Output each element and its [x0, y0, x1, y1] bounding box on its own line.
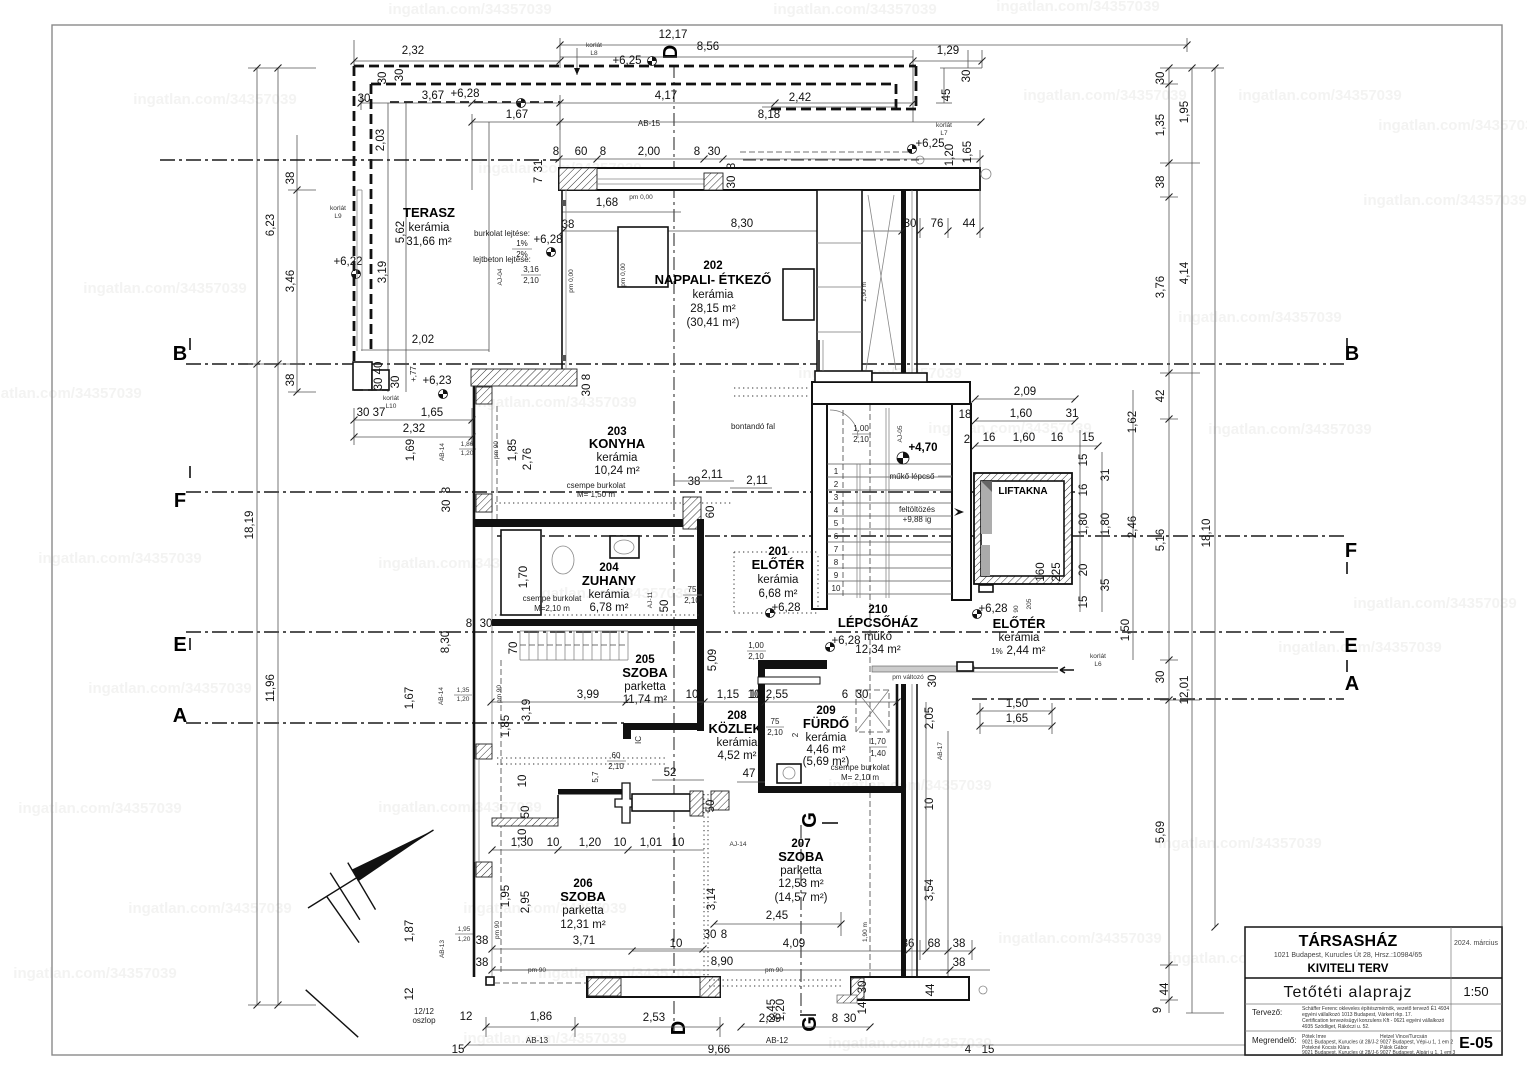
- svg-text:15: 15: [452, 1044, 465, 1056]
- section line E-E: [186, 631, 1344, 633]
- svg-text:2,03: 2,03: [375, 129, 387, 151]
- svg-text:31,66 m²: 31,66 m²: [406, 236, 452, 248]
- svg-text:205: 205: [1026, 598, 1033, 609]
- svg-text:2,76: 2,76: [522, 448, 534, 470]
- svg-text:csempe burkolat: csempe burkolat: [831, 763, 890, 772]
- svg-text:4: 4: [965, 1044, 972, 1056]
- svg-text:ingatlan.com/34357039: ingatlan.com/34357039: [18, 800, 181, 817]
- svg-text:4,17: 4,17: [655, 90, 677, 102]
- svg-text:4,14: 4,14: [1179, 261, 1191, 284]
- svg-text:7: 7: [533, 177, 545, 183]
- svg-text:16: 16: [1051, 432, 1064, 444]
- svg-text:90: 90: [1013, 605, 1020, 613]
- svg-text:18,19: 18,19: [244, 511, 256, 540]
- svg-text:9: 9: [834, 571, 839, 580]
- svg-text:38: 38: [562, 219, 575, 231]
- svg-text:2: 2: [964, 434, 970, 446]
- svg-text:pm 90: pm 90: [528, 967, 546, 974]
- svg-text:parketta: parketta: [624, 681, 666, 693]
- svg-text:3,19: 3,19: [521, 699, 533, 721]
- svg-text:6,68 m²: 6,68 m²: [759, 588, 798, 600]
- svg-text:10: 10: [547, 837, 560, 849]
- svg-text:52: 52: [664, 767, 677, 779]
- pier hatched: [476, 387, 492, 404]
- svg-text:8: 8: [581, 374, 593, 380]
- svg-text:ingatlan.com/34357039: ingatlan.com/34357039: [388, 1, 551, 18]
- svg-text:2,32: 2,32: [403, 423, 425, 435]
- tall cabinet: [817, 190, 862, 376]
- svg-text:M= 2,10 m: M= 2,10 m: [841, 773, 879, 782]
- svg-text:D: D: [668, 1021, 690, 1035]
- svg-text:30: 30: [480, 618, 493, 630]
- north exterior wall band with windows: [559, 168, 980, 190]
- svg-text:L10: L10: [386, 403, 397, 410]
- svg-text:9,66: 9,66: [708, 1044, 730, 1056]
- svg-text:16: 16: [983, 432, 996, 444]
- svg-text:42: 42: [1155, 390, 1167, 403]
- svg-text:38: 38: [285, 374, 297, 387]
- lift shaft: [974, 473, 1072, 584]
- svg-text:1,30: 1,30: [511, 837, 533, 849]
- upper wall band pieces: [818, 340, 820, 371]
- svg-text:F: F: [174, 490, 186, 512]
- svg-text:50: 50: [705, 800, 717, 813]
- svg-text:3,76: 3,76: [1155, 276, 1167, 298]
- pier hatched: [476, 862, 492, 877]
- svg-text:parketta: parketta: [780, 865, 822, 877]
- svg-text:ingatlan.com/34357039: ingatlan.com/34357039: [1208, 421, 1371, 438]
- svg-text:ELŐTÉR: ELŐTÉR: [752, 557, 805, 572]
- svg-text:TERASZ: TERASZ: [403, 205, 455, 220]
- svg-text:30: 30: [358, 93, 371, 105]
- svg-text:1,70: 1,70: [518, 566, 530, 588]
- svg-text:1,85: 1,85: [500, 715, 512, 737]
- svg-text:1,20: 1,20: [458, 936, 471, 943]
- svg-text:ingatlan.com/34357039: ingatlan.com/34357039: [1363, 192, 1526, 209]
- svg-text:műkő: műkő: [864, 631, 892, 643]
- svg-text:csempe burkolat: csempe burkolat: [567, 481, 626, 490]
- svg-text:1,95: 1,95: [500, 885, 512, 907]
- north arrow: [352, 830, 434, 882]
- section line A-A: [186, 722, 628, 724]
- svg-text:10: 10: [517, 775, 529, 788]
- svg-text:5,69: 5,69: [1155, 821, 1167, 843]
- right dimension chains: [1168, 68, 1170, 1013]
- svg-text:60: 60: [705, 506, 717, 519]
- svg-text:31: 31: [533, 160, 545, 173]
- svg-text:30: 30: [1155, 72, 1167, 85]
- svg-text:1,86: 1,86: [461, 441, 474, 448]
- svg-text:L7: L7: [940, 130, 948, 137]
- svg-text:47: 47: [743, 768, 756, 780]
- svg-text:pm változó: pm változó: [892, 674, 924, 681]
- svg-text:pm 0,00: pm 0,00: [568, 269, 575, 293]
- svg-text:AB-14: AB-14: [439, 443, 446, 461]
- svg-text:8,30: 8,30: [731, 218, 753, 230]
- svg-text:1,20: 1,20: [944, 144, 956, 166]
- svg-text:+6,22: +6,22: [333, 256, 362, 268]
- svg-text:LIFTAKNA: LIFTAKNA: [998, 486, 1047, 497]
- svg-text:1021 Budapest, Kurucles Út 28,: 1021 Budapest, Kurucles Út 28, Hrsz.:109…: [1274, 950, 1422, 959]
- bottom wall room 206: [587, 977, 720, 997]
- dining table: [783, 269, 814, 320]
- svg-text:kerámia: kerámia: [999, 632, 1041, 644]
- zuhany bottom wall: [492, 619, 704, 626]
- svg-text:1%: 1%: [516, 239, 528, 248]
- svg-text:KIVITELI TERV: KIVITELI TERV: [1308, 963, 1389, 975]
- svg-text:ingatlan.com/34357039: ingatlan.com/34357039: [996, 0, 1159, 15]
- bottom wall room 207: [851, 977, 969, 1000]
- svg-text:L8: L8: [590, 50, 598, 57]
- svg-text:3,67: 3,67: [422, 90, 444, 102]
- svg-text:40: 40: [373, 362, 385, 375]
- svg-text:2,02: 2,02: [412, 334, 434, 346]
- window pier hatched mid: [704, 173, 723, 190]
- svg-text:2,95: 2,95: [520, 891, 532, 913]
- svg-text:8: 8: [441, 487, 453, 493]
- svg-text:AB-15: AB-15: [638, 119, 661, 128]
- cross column: [615, 783, 637, 823]
- svg-text:12,17: 12,17: [659, 29, 688, 41]
- svg-text:kerámia: kerámia: [597, 452, 639, 464]
- svg-text:1,01: 1,01: [640, 837, 662, 849]
- svg-text:pm 90: pm 90: [493, 441, 500, 459]
- svg-text:1,70: 1,70: [870, 737, 886, 746]
- svg-text:8,18: 8,18: [758, 109, 780, 121]
- svg-text:7: 7: [834, 545, 839, 554]
- staircase outer walls: [812, 382, 970, 404]
- svg-text:L9: L9: [334, 213, 342, 220]
- svg-text:2,10: 2,10: [523, 276, 539, 285]
- svg-text:FÜRDŐ: FÜRDŐ: [803, 716, 849, 731]
- svg-text:+4,70: +4,70: [908, 442, 937, 454]
- svg-text:50: 50: [520, 806, 532, 819]
- svg-text:ingatlan.com/34357039: ingatlan.com/34357039: [83, 280, 246, 297]
- svg-text:kerámia: kerámia: [589, 589, 631, 601]
- sideboard furniture: [618, 227, 668, 287]
- outdoor landing walls: [872, 666, 974, 672]
- svg-text:+6,28: +6,28: [771, 602, 800, 614]
- svg-text:2,46: 2,46: [1127, 516, 1139, 538]
- svg-text:TÁRSASHÁZ: TÁRSASHÁZ: [1299, 931, 1398, 950]
- svg-text:2,09: 2,09: [1014, 386, 1036, 398]
- svg-text:kerámia: kerámia: [693, 289, 735, 301]
- svg-text:burkolat lejtése:: burkolat lejtése:: [474, 229, 530, 238]
- svg-text:kerámia: kerámia: [409, 222, 451, 234]
- svg-text:38: 38: [953, 957, 966, 969]
- svg-text:3,14: 3,14: [706, 887, 718, 910]
- svg-text:10,24 m²: 10,24 m²: [594, 465, 640, 477]
- svg-text:AB-12: AB-12: [766, 1036, 789, 1045]
- west exterior wall lower wing: [473, 369, 476, 977]
- svg-text:korlát: korlát: [586, 42, 602, 49]
- svg-text:9021 Budapest, Kurucles út 28/: 9021 Budapest, Kurucles út 28/J-6: [1302, 1050, 1379, 1056]
- top dimension chains: [560, 44, 1187, 46]
- svg-text:10: 10: [750, 689, 763, 701]
- svg-text:E: E: [1344, 635, 1357, 657]
- svg-text:2,53: 2,53: [643, 1012, 665, 1024]
- svg-text:4: 4: [834, 506, 839, 515]
- svg-text:2: 2: [834, 480, 839, 489]
- svg-text:+9,88 ig: +9,88 ig: [903, 515, 932, 524]
- svg-text:+6,28: +6,28: [978, 603, 1007, 615]
- svg-text:4,46 m²: 4,46 m²: [807, 744, 846, 756]
- svg-text:ingatlan.com/34357039: ingatlan.com/34357039: [0, 385, 142, 402]
- svg-text:ingatlan.com/34357039: ingatlan.com/34357039: [13, 965, 176, 982]
- svg-text:1,20: 1,20: [775, 999, 787, 1021]
- svg-text:12,31 m²: 12,31 m²: [560, 919, 606, 931]
- svg-text:31: 31: [1066, 408, 1079, 420]
- svg-text:30: 30: [927, 675, 939, 688]
- svg-text:15: 15: [982, 1044, 995, 1056]
- svg-text:Tervező:: Tervező:: [1252, 1008, 1282, 1017]
- svg-text:1,62: 1,62: [1127, 411, 1139, 433]
- svg-text:8: 8: [834, 558, 839, 567]
- svg-text:5: 5: [834, 519, 839, 528]
- svg-text:Megrendelő:: Megrendelő:: [1252, 1036, 1296, 1045]
- svg-text:76: 76: [931, 218, 944, 230]
- svg-text:1,40: 1,40: [870, 749, 886, 758]
- svg-text:AB-13: AB-13: [439, 940, 446, 958]
- parapet dotted below 207: [709, 979, 841, 981]
- svg-text:30: 30: [581, 384, 593, 397]
- svg-text:30: 30: [394, 69, 406, 82]
- svg-text:11,96: 11,96: [265, 674, 277, 702]
- svg-text:4,52 m²: 4,52 m²: [718, 750, 757, 762]
- svg-text:ingatlan.com/34357039: ingatlan.com/34357039: [38, 550, 201, 567]
- terrace parapet bottom step: [353, 362, 372, 390]
- stair treads room205 top: [519, 631, 521, 660]
- svg-text:75: 75: [688, 585, 697, 594]
- svg-text:30: 30: [708, 146, 721, 158]
- svg-text:3,19: 3,19: [377, 261, 389, 283]
- svg-text:2,44 m²: 2,44 m²: [1007, 645, 1046, 657]
- svg-text:SZOBA: SZOBA: [778, 849, 824, 864]
- svg-text:1,67: 1,67: [506, 109, 528, 121]
- svg-text:G: G: [799, 1016, 821, 1032]
- svg-text:AJ-11: AJ-11: [647, 591, 654, 608]
- svg-text:korlát: korlát: [330, 205, 346, 212]
- svg-text:+6,23: +6,23: [422, 375, 451, 387]
- svg-text:12/12: 12/12: [414, 1007, 435, 1016]
- svg-text:oszlop: oszlop: [412, 1016, 436, 1025]
- svg-text:1,60: 1,60: [1010, 408, 1032, 420]
- svg-text:10: 10: [686, 689, 699, 701]
- lift bottom box: [979, 585, 993, 592]
- svg-text:1,29: 1,29: [937, 45, 959, 57]
- stair dashed walk line: [842, 410, 844, 596]
- svg-text:8: 8: [466, 618, 472, 630]
- column circle marker: [981, 169, 991, 179]
- svg-text:AB-17: AB-17: [937, 742, 944, 760]
- kitchen top wall hatched: [471, 369, 577, 386]
- zuhany right wall pier: [683, 497, 701, 529]
- svg-text:14: 14: [857, 1001, 869, 1014]
- svg-text:38: 38: [688, 476, 701, 488]
- wall 207/208 band: [632, 794, 690, 811]
- svg-text:1: 1: [834, 467, 839, 476]
- left dimension chains: [256, 68, 258, 1005]
- svg-text:45: 45: [941, 89, 953, 102]
- svg-text:12: 12: [460, 1011, 473, 1023]
- svg-text:8: 8: [553, 146, 559, 158]
- svg-text:44: 44: [1159, 982, 1171, 995]
- svg-text:1,68: 1,68: [596, 197, 618, 209]
- svg-text:30: 30: [373, 378, 385, 391]
- section line B-B: [186, 363, 1344, 365]
- svg-text:B: B: [173, 343, 187, 365]
- svg-text:NAPPALI- ÉTKEZŐ: NAPPALI- ÉTKEZŐ: [655, 272, 772, 287]
- svg-text:pm 90: pm 90: [765, 967, 783, 974]
- svg-text:KÖZLEK.: KÖZLEK.: [708, 721, 765, 736]
- roof slope dashed line: [869, 405, 871, 977]
- svg-text:(30,41 m²): (30,41 m²): [686, 317, 739, 329]
- corridor bottom wall: [558, 789, 628, 795]
- section line G vertical: [800, 825, 802, 1013]
- svg-text:30: 30: [844, 1013, 857, 1025]
- title block: [1245, 927, 1502, 1055]
- stair treads: [827, 463, 952, 465]
- window pier hatched left: [559, 168, 597, 190]
- svg-text:2,10: 2,10: [684, 596, 700, 605]
- svg-text:5,62: 5,62: [395, 221, 407, 243]
- svg-text:38: 38: [1155, 176, 1167, 189]
- svg-text:1,65: 1,65: [962, 141, 974, 163]
- svg-text:202: 202: [703, 260, 722, 272]
- svg-text:kerámia: kerámia: [717, 737, 759, 749]
- svg-text:30: 30: [377, 72, 389, 85]
- svg-text:ELŐTÉR: ELŐTÉR: [993, 616, 1046, 631]
- svg-text:225: 225: [1051, 562, 1063, 581]
- svg-text:6,23: 6,23: [265, 214, 277, 236]
- svg-text:1,69: 1,69: [405, 439, 417, 461]
- terrace parapet dashed walls: [354, 65, 916, 68]
- svg-text:30: 30: [726, 176, 738, 189]
- wall stubs above stair: [815, 371, 872, 382]
- svg-text:38: 38: [285, 172, 297, 185]
- svg-text:AJ-04: AJ-04: [497, 268, 504, 285]
- svg-text:9: 9: [1152, 1007, 1164, 1013]
- svg-text:(14,57 m²): (14,57 m²): [774, 892, 827, 904]
- svg-text:2: 2: [791, 732, 800, 737]
- svg-text:30: 30: [857, 981, 869, 994]
- west window glazing: [474, 759, 476, 862]
- svg-text:3,16: 3,16: [523, 265, 539, 274]
- svg-text:2024. március: 2024. március: [1454, 940, 1498, 947]
- svg-text:30: 30: [856, 689, 869, 701]
- svg-text:1,67: 1,67: [404, 687, 416, 709]
- svg-text:pm 0,00: pm 0,00: [620, 263, 627, 287]
- svg-text:1,50: 1,50: [1006, 698, 1028, 710]
- dim line room 206: [492, 849, 704, 851]
- svg-text:1,86: 1,86: [530, 1011, 552, 1023]
- wall 207/208 pier: [690, 791, 703, 816]
- stair guide lines: [856, 464, 858, 598]
- svg-text:ingatlan.com/34357039: ingatlan.com/34357039: [1023, 87, 1186, 104]
- pier hatched: [476, 744, 492, 759]
- svg-text:2,10: 2,10: [853, 435, 869, 444]
- svg-text:L6: L6: [1094, 661, 1102, 668]
- svg-text:G: G: [799, 812, 821, 828]
- svg-text:Tetőtéti alaprajz: Tetőtéti alaprajz: [1283, 984, 1412, 1001]
- svg-text:10: 10: [832, 584, 841, 593]
- svg-text:1:50: 1:50: [1463, 984, 1488, 999]
- small corner column: [486, 977, 494, 985]
- svg-text:ingatlan.com/34357039: ingatlan.com/34357039: [1178, 309, 1341, 326]
- wall terrace-kitchen: [561, 190, 563, 369]
- corridor dotted opening lines: [497, 757, 668, 759]
- svg-text:F: F: [1345, 540, 1357, 562]
- zuhany top wall: [474, 519, 704, 527]
- svg-text:ingatlan.com/34357039: ingatlan.com/34357039: [128, 900, 291, 917]
- svg-text:ingatlan.com/34357039: ingatlan.com/34357039: [1378, 117, 1527, 134]
- svg-text:30: 30: [441, 500, 453, 513]
- svg-text:4,09: 4,09: [783, 938, 805, 950]
- svg-text:160: 160: [1035, 562, 1047, 581]
- svg-text:ingatlan.com/34357039: ingatlan.com/34357039: [378, 799, 541, 816]
- svg-text:18,10: 18,10: [1201, 519, 1213, 548]
- svg-text:1,60: 1,60: [1013, 432, 1035, 444]
- stair bottom wall: [763, 660, 827, 669]
- dimension ticks: [557, 42, 564, 49]
- svg-text:8,30: 8,30: [440, 631, 452, 653]
- svg-text:ingatlan.com/34357039: ingatlan.com/34357039: [773, 1, 936, 18]
- svg-text:ingatlan.com/34357039: ingatlan.com/34357039: [1238, 87, 1401, 104]
- svg-text:6: 6: [842, 689, 848, 701]
- svg-text:ingatlan.com/34357039: ingatlan.com/34357039: [1158, 835, 1321, 852]
- svg-text:LÉPCSŐHÁZ: LÉPCSŐHÁZ: [838, 615, 918, 630]
- svg-text:12,34 m²: 12,34 m²: [855, 644, 901, 656]
- svg-text:8: 8: [832, 1013, 838, 1025]
- svg-text:2,00: 2,00: [638, 146, 660, 158]
- svg-text:75: 75: [771, 717, 780, 726]
- svg-text:A: A: [173, 705, 187, 727]
- svg-text:10: 10: [672, 837, 685, 849]
- svg-text:M=2,10 m: M=2,10 m: [534, 604, 570, 613]
- svg-text:2,32: 2,32: [402, 45, 424, 57]
- svg-text:KONYHA: KONYHA: [589, 436, 646, 451]
- svg-text:1,65: 1,65: [421, 407, 443, 419]
- svg-text:5,7: 5,7: [591, 771, 600, 783]
- svg-text:10: 10: [670, 938, 683, 950]
- svg-text:1,00: 1,00: [853, 424, 869, 433]
- svg-text:11,74 m²: 11,74 m²: [623, 694, 668, 706]
- svg-text:2,10: 2,10: [608, 762, 624, 771]
- svg-text:SZOBA: SZOBA: [560, 889, 606, 904]
- svg-text:ingatlan.com/34357039: ingatlan.com/34357039: [1353, 595, 1516, 612]
- svg-text:AJ-14: AJ-14: [730, 841, 747, 848]
- svg-text:AB-13: AB-13: [526, 1036, 549, 1045]
- svg-text:kerámia: kerámia: [758, 574, 800, 586]
- svg-text:50: 50: [659, 600, 671, 613]
- svg-text:kerámia: kerámia: [806, 732, 848, 744]
- svg-text:csempe burkolat: csempe burkolat: [523, 594, 582, 603]
- svg-text:lejtbeton lejtése:: lejtbeton lejtése:: [473, 255, 531, 264]
- section line F-F: [186, 491, 1075, 493]
- svg-text:1,95: 1,95: [1179, 101, 1191, 123]
- svg-text:1,65: 1,65: [1006, 713, 1028, 725]
- svg-text:37: 37: [373, 407, 386, 419]
- svg-text:IC: IC: [634, 736, 643, 744]
- terrace railing L9 (thin double line): [356, 190, 358, 351]
- svg-text:1,20: 1,20: [457, 696, 470, 703]
- svg-text:9027 Budapest, Alpári u 1, 1 e: 9027 Budapest, Alpári u 1, 1 em 3: [1380, 1050, 1456, 1056]
- window glazing lines: [597, 178, 704, 180]
- east main wall vertical: [901, 190, 906, 382]
- svg-text:1,95: 1,95: [458, 926, 471, 933]
- svg-text:SZOBA: SZOBA: [622, 665, 668, 680]
- svg-text:1,35: 1,35: [1155, 114, 1167, 136]
